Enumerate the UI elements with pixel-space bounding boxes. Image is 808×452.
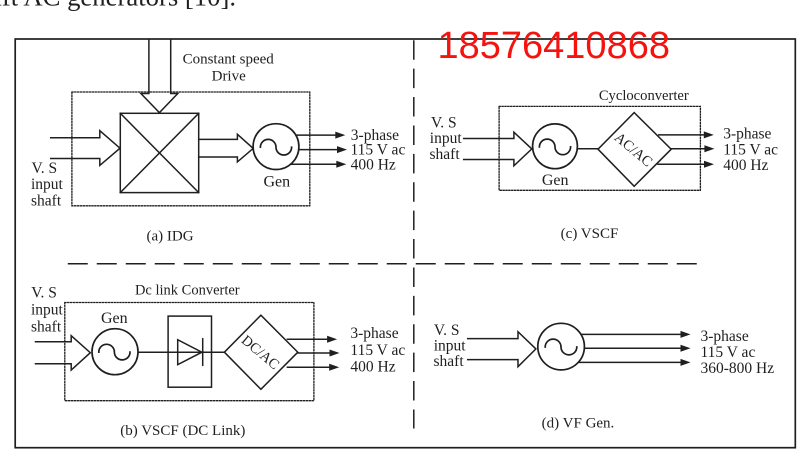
- svg-text:V. S: V. S: [31, 285, 57, 302]
- svg-text:Drive: Drive: [212, 69, 246, 85]
- svg-text:(d) VF Gen.: (d) VF Gen.: [542, 416, 615, 432]
- svg-text:115 V ac: 115 V ac: [350, 342, 405, 359]
- svg-text:(b) VSCF (DC Link): (b) VSCF (DC Link): [120, 423, 245, 439]
- svg-text:Cycloconverter: Cycloconverter: [599, 88, 689, 104]
- svg-text:3-phase: 3-phase: [723, 125, 771, 142]
- svg-text:input: input: [31, 301, 64, 318]
- svg-text:3-phase: 3-phase: [350, 325, 398, 342]
- svg-text:18576410868: 18576410868: [438, 25, 670, 67]
- svg-text:Gen: Gen: [542, 172, 569, 189]
- svg-text:shaft: shaft: [31, 192, 62, 209]
- svg-text:shaft: shaft: [430, 146, 461, 163]
- svg-text:input: input: [31, 176, 64, 193]
- svg-text:Constant speed: Constant speed: [183, 52, 275, 68]
- svg-text:(a) IDG: (a) IDG: [146, 229, 193, 245]
- svg-text:3-phase: 3-phase: [701, 328, 749, 345]
- svg-text:Gen: Gen: [263, 173, 290, 190]
- svg-text:360-800 Hz: 360-800 Hz: [701, 360, 775, 377]
- svg-text:V. S: V. S: [32, 160, 58, 177]
- svg-text:Gen: Gen: [101, 310, 128, 327]
- svg-text:aft AC generators [10].: aft AC generators [10].: [0, 0, 236, 12]
- svg-text:400 Hz: 400 Hz: [350, 358, 395, 375]
- svg-text:input: input: [430, 130, 463, 147]
- svg-text:400 Hz: 400 Hz: [351, 156, 396, 173]
- svg-text:shaft: shaft: [434, 353, 465, 370]
- svg-text:115 V ac: 115 V ac: [701, 344, 756, 361]
- svg-text:Dc link Converter: Dc link Converter: [135, 283, 240, 299]
- svg-text:(c) VSCF: (c) VSCF: [561, 226, 619, 242]
- svg-text:shaft: shaft: [31, 318, 62, 335]
- svg-text:400 Hz: 400 Hz: [723, 157, 768, 174]
